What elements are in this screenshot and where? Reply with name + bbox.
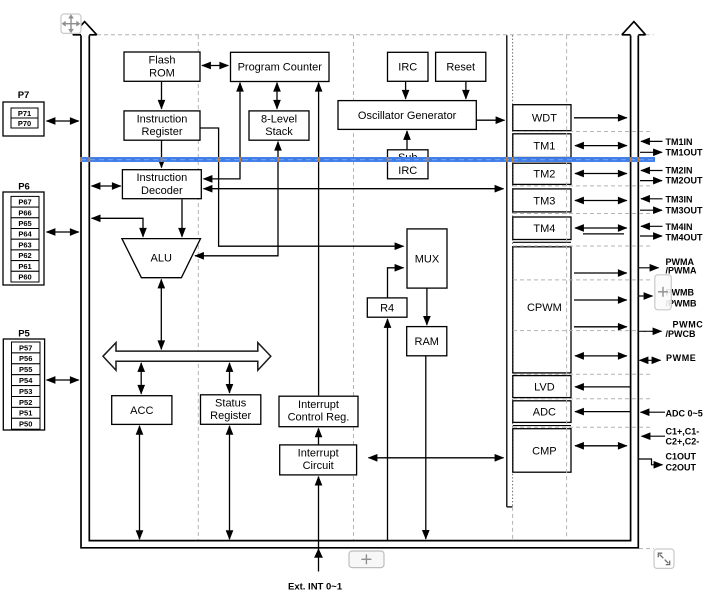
svg-text:Program Counter: Program Counter bbox=[238, 62, 323, 74]
svg-text:PWME: PWME bbox=[666, 353, 696, 363]
svg-text:P64: P64 bbox=[18, 230, 32, 239]
port group P5 box bbox=[3, 339, 44, 430]
svg-text:TM4OUT: TM4OUT bbox=[666, 233, 704, 243]
port P56 cell bbox=[12, 353, 41, 364]
wire CPWM PWME - right bus double bbox=[575, 355, 627, 357]
wire Program Counter to Interrupt Control Reg bbox=[318, 83, 320, 396]
svg-text:P52: P52 bbox=[19, 398, 32, 407]
svg-text:Stack: Stack bbox=[265, 126, 293, 138]
svg-text:Instruction: Instruction bbox=[136, 172, 187, 184]
wire right bus to ADC bbox=[575, 411, 630, 413]
peripheral column dotted left line bbox=[512, 35, 514, 507]
port P60 cell bbox=[11, 271, 39, 282]
port P66 cell bbox=[11, 207, 39, 218]
wire Oscillator Generator to peripheral column bbox=[477, 119, 505, 121]
port P64 cell bbox=[11, 229, 39, 240]
block LVD bbox=[513, 376, 571, 398]
dashed vertical section divider x=353 bbox=[353, 35, 355, 541]
svg-text:Control Reg.: Control Reg. bbox=[288, 411, 350, 423]
port P65 cell bbox=[11, 218, 39, 229]
svg-text:TM2: TM2 bbox=[533, 169, 555, 181]
svg-text:P54: P54 bbox=[19, 376, 33, 385]
wire pin C1OUT C2OUT out bbox=[639, 459, 663, 465]
svg-text:/PWCB: /PWCB bbox=[666, 329, 696, 339]
svg-text:P66: P66 bbox=[18, 208, 31, 217]
block 8-Level Stack bbox=[249, 111, 309, 140]
dashed stub right of outer frame bottom corner bbox=[639, 548, 654, 550]
svg-text:MUX: MUX bbox=[415, 253, 440, 265]
svg-text:P56: P56 bbox=[19, 354, 32, 363]
svg-text:C1+,C1-: C1+,C1- bbox=[666, 427, 700, 437]
wire pin PWMB out bbox=[639, 295, 653, 297]
svg-text:TM1IN: TM1IN bbox=[666, 137, 693, 147]
svg-text:LVD: LVD bbox=[534, 382, 555, 394]
block R4 bbox=[367, 298, 407, 317]
svg-text:RAM: RAM bbox=[415, 336, 439, 348]
dashed row separators of peripheral sections bbox=[513, 131, 650, 133]
outer bus rail (left+bottom+right) bbox=[81, 35, 638, 547]
wire pin TM1OUT bbox=[640, 151, 662, 153]
wire Program Counter - 8-Level Stack double arrow bbox=[276, 83, 278, 109]
port P55 cell bbox=[12, 364, 41, 375]
svg-text:P53: P53 bbox=[19, 387, 32, 396]
svg-text:P65: P65 bbox=[18, 219, 31, 228]
plus button (right side) bbox=[655, 275, 672, 310]
wire TM1 - right bus double bbox=[575, 145, 627, 147]
svg-text:Decoder: Decoder bbox=[141, 185, 183, 197]
svg-text:IRC: IRC bbox=[398, 62, 417, 74]
dashed vertical section divider x=198 bbox=[197, 35, 199, 541]
port group P7 box bbox=[3, 102, 44, 136]
wire pin PWME double bbox=[640, 359, 661, 361]
wire P5 - bus double arrow bbox=[47, 379, 79, 381]
svg-text:P61: P61 bbox=[18, 262, 31, 271]
svg-text:Circuit: Circuit bbox=[303, 460, 334, 472]
wire bus to ALU top (left input) bbox=[92, 218, 143, 237]
port P50 cell bbox=[12, 418, 41, 429]
wire TM4 - right bus double bbox=[575, 227, 627, 229]
svg-text:ROM: ROM bbox=[149, 67, 175, 79]
svg-text:TM2OUT: TM2OUT bbox=[666, 176, 704, 186]
block ADC bbox=[513, 401, 571, 423]
svg-text:P6: P6 bbox=[18, 182, 30, 193]
svg-text:P55: P55 bbox=[19, 365, 32, 374]
svg-text:ACC: ACC bbox=[130, 405, 153, 417]
svg-text:TM1OUT: TM1OUT bbox=[666, 148, 704, 158]
port P62 cell bbox=[11, 250, 39, 261]
svg-text:Register: Register bbox=[210, 410, 251, 422]
wire bus - Instruction Decoder double arrow bbox=[92, 185, 121, 187]
svg-text:TM2IN: TM2IN bbox=[666, 166, 693, 176]
svg-text:PWMC: PWMC bbox=[673, 319, 704, 329]
svg-text:P70: P70 bbox=[18, 119, 31, 128]
svg-text:P5: P5 bbox=[18, 329, 30, 340]
svg-text:C2+,C2-: C2+,C2- bbox=[666, 436, 700, 446]
port group P6 box bbox=[3, 192, 44, 285]
svg-text:P62: P62 bbox=[18, 251, 31, 260]
wire CPWM PWMB to right bus bbox=[574, 299, 627, 301]
move tool icon (top left) bbox=[61, 14, 81, 33]
separator line below TM4 group bbox=[513, 241, 571, 243]
wire TM2 - right bus double bbox=[575, 173, 627, 175]
wire WDT to right bus bbox=[574, 117, 627, 119]
block TM1 bbox=[513, 134, 571, 158]
svg-text:Ext. INT 0~1: Ext. INT 0~1 bbox=[288, 581, 343, 592]
block ACC bbox=[112, 396, 172, 425]
wire P6 - bus double arrow bbox=[47, 231, 79, 233]
wire pin PWMA out bbox=[639, 267, 659, 269]
svg-text:TM3: TM3 bbox=[533, 195, 555, 207]
svg-text:Oscillator Generator: Oscillator Generator bbox=[358, 110, 457, 122]
wire Instruction Register to MUX bbox=[201, 128, 404, 246]
wire Instruction Register to Instruction Decoder bbox=[161, 140, 163, 167]
svg-text:P63: P63 bbox=[18, 240, 31, 249]
block Interrupt Control Reg. bbox=[279, 396, 358, 427]
svg-text:TM4IN: TM4IN bbox=[666, 222, 693, 232]
block Interrupt Circuit bbox=[280, 445, 357, 475]
blue line dash overlay bbox=[81, 159, 654, 161]
svg-text:P7: P7 bbox=[18, 90, 30, 101]
wire pin PWMC out bbox=[639, 330, 662, 332]
port P53 cell bbox=[12, 386, 41, 397]
inner bus rail (left+bottom+right) bbox=[89, 35, 630, 540]
wire Flash ROM to Instruction Register bbox=[161, 82, 163, 109]
svg-text:TM3IN: TM3IN bbox=[666, 194, 693, 204]
port P61 cell bbox=[11, 261, 39, 272]
wire pin TM1IN bbox=[641, 140, 663, 142]
svg-text:P50: P50 bbox=[19, 420, 32, 429]
port P71 cell bbox=[11, 108, 38, 118]
wire TM4 stub line bbox=[583, 233, 624, 235]
block Instruction Register bbox=[124, 111, 200, 140]
wire Reset to Oscillator Generator bbox=[465, 82, 467, 99]
wire Instruction Decoder to ALU bbox=[181, 199, 183, 236]
wire TM3 - right bus double bbox=[575, 200, 627, 202]
wire P7 - bus double arrow bbox=[47, 120, 79, 122]
block TM3 bbox=[513, 189, 571, 212]
wire pin TM4IN bbox=[641, 225, 663, 227]
svg-text:R4: R4 bbox=[380, 303, 394, 315]
block Program Counter bbox=[231, 52, 330, 81]
block Sub IRC bbox=[388, 150, 429, 179]
orange crossing ticks on blue line bbox=[80, 157, 82, 162]
wire pin TM4OUT bbox=[640, 235, 662, 237]
wire pin ADC 0~5 in bbox=[641, 411, 666, 413]
svg-text:8-Level: 8-Level bbox=[261, 114, 297, 126]
dashed vertical divider x=566 through peripheral column bbox=[566, 35, 568, 540]
svg-text:ALU: ALU bbox=[150, 252, 171, 264]
block ALU (trapezoid) bbox=[122, 239, 201, 278]
port P52 cell bbox=[12, 397, 41, 408]
wire pin TM2OUT bbox=[640, 180, 662, 182]
svg-text:Status: Status bbox=[215, 397, 247, 409]
block Flash ROM bbox=[124, 52, 200, 81]
svg-text:Instruction: Instruction bbox=[137, 114, 188, 126]
wire CPWM PWMC to right bus bbox=[574, 326, 627, 328]
svg-text:ADC 0~5: ADC 0~5 bbox=[666, 409, 703, 419]
block WDT bbox=[513, 105, 571, 131]
wire Instruction Decoder to peripheral column (long) bbox=[204, 188, 504, 190]
wire Flash ROM - Program Counter double arrow bbox=[202, 65, 228, 67]
port P63 cell bbox=[11, 239, 39, 250]
wire bottom rail to R4 bbox=[387, 319, 389, 540]
port P57 cell bbox=[12, 342, 41, 353]
wire Interrupt Circuit to Interrupt Control Reg bbox=[318, 428, 320, 444]
blue highlighted divider line bbox=[80, 157, 655, 162]
wire Program Counter to Instruction Decoder bbox=[204, 83, 241, 179]
dashed top boundary line bbox=[97, 34, 621, 36]
block CMP bbox=[513, 429, 571, 473]
svg-text:Interrupt: Interrupt bbox=[298, 447, 339, 459]
port P67 cell bbox=[11, 196, 39, 207]
wire data bus arrow - ACC double bbox=[140, 363, 142, 394]
right bus arrowhead chevron bbox=[622, 22, 646, 35]
block Reset bbox=[436, 52, 486, 81]
svg-text:C2OUT: C2OUT bbox=[666, 462, 697, 472]
svg-text:Reset: Reset bbox=[446, 62, 475, 74]
block Instruction Decoder bbox=[122, 170, 201, 199]
svg-text:Register: Register bbox=[142, 126, 183, 138]
plus button (bottom center) bbox=[349, 551, 384, 568]
wire IRC to Oscillator Generator bbox=[405, 82, 407, 99]
wire 8-Level Stack to ALU bbox=[195, 142, 278, 256]
port P70 cell bbox=[11, 118, 38, 128]
left bus arrowhead chevron bbox=[73, 22, 97, 35]
svg-text:TM1: TM1 bbox=[533, 141, 555, 153]
wire Interrupt Circuit - peripheral column double (long) bbox=[369, 457, 504, 459]
svg-text:WDT: WDT bbox=[532, 113, 557, 125]
block RAM bbox=[407, 327, 447, 356]
block TM2 bbox=[513, 163, 571, 184]
svg-text:P60: P60 bbox=[18, 273, 31, 282]
wire CPWM PWMA to right bus bbox=[574, 272, 627, 274]
svg-text:IRC: IRC bbox=[398, 165, 417, 177]
svg-text:P51: P51 bbox=[19, 409, 32, 418]
svg-text:TM4: TM4 bbox=[533, 223, 555, 235]
block Oscillator Generator bbox=[338, 101, 476, 130]
port P54 cell bbox=[12, 375, 41, 386]
arrowhead Ext INT at outer frame bbox=[315, 549, 323, 557]
svg-text:CPWM: CPWM bbox=[527, 302, 562, 314]
wire Status Register - bottom rail double bbox=[229, 426, 231, 539]
svg-text:P57: P57 bbox=[19, 343, 32, 352]
block Status Register bbox=[201, 395, 261, 425]
block TM4 bbox=[513, 217, 571, 240]
svg-text:/PWMA: /PWMA bbox=[666, 266, 697, 276]
svg-text:Flash: Flash bbox=[149, 55, 176, 67]
svg-text:TM3OUT: TM3OUT bbox=[666, 205, 704, 215]
svg-text:CMP: CMP bbox=[532, 445, 556, 457]
wire R4 to MUX bbox=[388, 268, 404, 298]
wire Sub IRC to Oscillator Generator bbox=[406, 131, 408, 149]
svg-text:P71: P71 bbox=[18, 109, 31, 118]
wire RAM to bottom rail bbox=[425, 356, 427, 539]
block CPWM bbox=[513, 247, 571, 373]
svg-text:P67: P67 bbox=[18, 198, 31, 207]
port P51 cell bbox=[12, 407, 41, 418]
resize icon (bottom right) bbox=[654, 549, 674, 568]
wire CMP - right bus double bbox=[575, 445, 627, 447]
wire Ext INT to Interrupt Circuit bbox=[318, 477, 320, 572]
block IRC bbox=[388, 52, 429, 81]
wire right bus to LVD bbox=[575, 386, 630, 388]
svg-text:C1OUT: C1OUT bbox=[666, 452, 697, 462]
wire ACC - bottom rail double bbox=[139, 426, 141, 539]
wire pin TM3OUT bbox=[640, 209, 662, 211]
wire pin C1 C2 in bbox=[642, 435, 666, 437]
wire ALU - data bus arrow double bbox=[160, 280, 162, 350]
wire MUX to RAM bbox=[426, 288, 428, 325]
svg-text:Interrupt: Interrupt bbox=[298, 399, 339, 411]
wire pin TM3IN bbox=[641, 198, 663, 200]
peripheral column solid left line bbox=[506, 35, 508, 507]
data bus wide double arrow bbox=[103, 343, 271, 371]
block MUX bbox=[407, 229, 447, 288]
separator line above CMP bbox=[513, 425, 571, 427]
svg-text:ADC: ADC bbox=[533, 407, 556, 419]
wire data bus arrow - Status Register double bbox=[229, 363, 231, 393]
wire pin TM2IN bbox=[641, 170, 663, 172]
